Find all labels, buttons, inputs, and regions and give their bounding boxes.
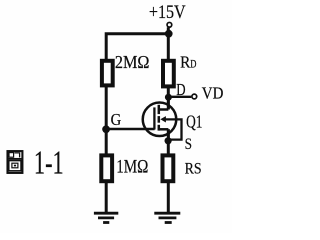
svg-text:D: D [176,80,185,99]
resistor RD [163,61,174,87]
svg-text:R: R [180,52,191,71]
svg-text:VD: VD [202,84,224,103]
junction dot node D [165,94,172,101]
terminal +15V open circle [167,22,172,27]
terminal VD open circle [192,94,197,99]
svg-text:2MΩ: 2MΩ [115,52,150,72]
wire right vertical rail lower (source stub to ground) [167,129,170,212]
svg-text:G: G [111,110,122,129]
wire gate (G node to gate bar) [106,128,154,131]
svg-text:S: S [185,136,192,153]
wire body loop (bulk tied to source) [166,119,182,139]
resistor RS [163,155,174,181]
ground symbol right [154,213,180,222]
resistor 2MΩ [102,61,113,86]
junction dot node S [165,137,172,144]
svg-text:D: D [190,58,196,70]
wire right vertical rail upper (VDD node to drain stub) [167,27,170,109]
svg-text:1-1: 1-1 [34,145,64,182]
transistor Q1 N-MOSFET symbol [143,97,177,141]
junction dot top VDD node [165,30,173,38]
wire top horizontal and left vertical rail [106,34,168,212]
svg-text:1MΩ: 1MΩ [116,157,148,178]
ground symbol left [94,213,118,222]
svg-text:+15V: +15V [149,2,186,23]
svg-text:Q1: Q1 [186,112,202,132]
resistor 1MΩ [101,155,112,181]
junction dot node G [102,125,110,133]
svg-text:RS: RS [185,160,202,177]
wire drain node to VD terminal [168,96,191,98]
caption character 圖 drawn as strokes [8,151,23,173]
